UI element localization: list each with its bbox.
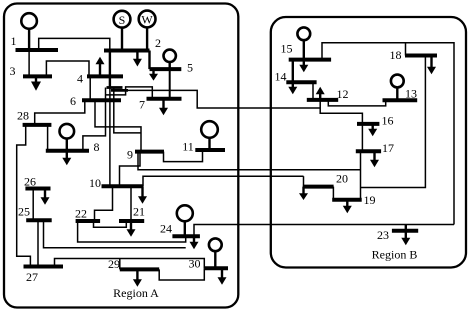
bus 20 — [303, 185, 334, 189]
generator G8 — [60, 124, 75, 139]
wire line 10-22 — [95, 186, 113, 221]
svg-text:3: 3 — [10, 64, 16, 78]
wire line 14-12 — [312, 82, 314, 100]
wire W stem — [146, 27, 148, 50]
svg-text:Region A: Region A — [113, 286, 159, 300]
transformer bar below bus 4 — [107, 86, 123, 89]
svg-text:7: 7 — [139, 98, 145, 112]
wire line 4-6 — [89, 76, 91, 100]
load arrow bus 2 — [136, 51, 138, 60]
bus 6 — [82, 98, 121, 102]
wire G5 stem — [168, 63, 170, 70]
wire transformer stem 6 up — [105, 88, 107, 101]
bus 4 — [87, 74, 123, 78]
bus 27 — [24, 265, 64, 269]
svg-text:29: 29 — [108, 257, 120, 271]
load arrow bus 10 — [141, 186, 143, 197]
generator G13 — [391, 75, 404, 88]
generator G24 — [177, 205, 193, 221]
bus 23 — [392, 229, 418, 233]
wire line 6-10 (step) — [95, 100, 141, 151]
bus 24 — [172, 234, 200, 238]
bus 30 — [204, 266, 228, 270]
load arrow bus 21 — [130, 221, 132, 230]
load arrow bus 7 — [162, 99, 164, 109]
bus 21 — [119, 219, 144, 223]
svg-text:2: 2 — [155, 36, 161, 50]
wire line 16-17 — [361, 124, 363, 151]
wire line 21-22 — [94, 221, 127, 227]
svg-text:18: 18 — [390, 48, 402, 62]
bus 11 — [195, 148, 225, 152]
svg-text:8: 8 — [94, 140, 100, 154]
svg-text:19: 19 — [364, 193, 376, 207]
svg-text:26: 26 — [24, 175, 36, 189]
load arrow bus 26 — [44, 189, 46, 199]
svg-text:15: 15 — [281, 42, 293, 56]
svg-text:22: 22 — [75, 207, 87, 221]
generator G1 — [21, 13, 37, 29]
bus 3 — [23, 74, 52, 78]
wire line 25-26 — [32, 189, 34, 221]
wire G8 stem — [66, 139, 68, 151]
svg-text:21: 21 — [133, 205, 145, 219]
wire line 2/6 vertical to bus 10 — [109, 88, 111, 187]
bus 17 — [356, 149, 381, 153]
wire line 4-12 (to Region B) — [111, 89, 128, 92]
wire line 2-5 — [148, 51, 150, 70]
generator S (solar) — [114, 11, 131, 28]
wire line 10-17 (to Region B) — [138, 152, 361, 170]
wire line 24-25 — [44, 220, 186, 247]
load arrow bus 20 — [302, 187, 304, 194]
wire G1 stem — [28, 29, 30, 50]
bus 10 — [102, 184, 144, 188]
bus 13 — [383, 98, 418, 102]
wire line 14-15 + load arrow bus 14 — [292, 60, 294, 88]
bus 22 — [76, 219, 101, 223]
generator G5 — [164, 50, 176, 62]
wire line 10-20 (to Region B) — [143, 176, 304, 186]
load arrow bus 19 — [346, 200, 348, 207]
wire line 23-24 (to Region B) with flow arrow — [194, 225, 454, 237]
svg-text:W: W — [141, 13, 153, 27]
bus 28 — [23, 123, 52, 127]
bus 14 — [286, 80, 316, 84]
bus 9 — [135, 150, 164, 154]
wire line 1-2 — [39, 38, 110, 50]
load arrow bus 8 — [66, 151, 68, 159]
Region A boundary box — [4, 4, 238, 308]
wire bus 18 stub to trunk — [405, 43, 407, 56]
load arrow bus 3 — [35, 76, 37, 82]
bus 29 — [120, 267, 159, 271]
wire line 9-11 — [164, 150, 203, 162]
svg-text:9: 9 — [127, 148, 133, 162]
svg-text:11: 11 — [182, 140, 194, 154]
wire trunk 27-29-30 — [55, 259, 205, 269]
wire line 29-30 — [159, 268, 204, 280]
svg-text:10: 10 — [89, 176, 101, 190]
svg-text:S: S — [119, 13, 126, 27]
wire line 9-10 — [120, 152, 141, 187]
svg-text:4: 4 — [77, 72, 83, 86]
wire line 8-28 — [47, 125, 49, 151]
wire line 6-7 — [106, 87, 153, 99]
svg-text:16: 16 — [382, 114, 394, 128]
wire line 28-27 — [17, 125, 31, 267]
bus 15 — [289, 58, 331, 62]
wire line 12-16 — [320, 100, 362, 124]
load arrow bus 5 — [152, 69, 154, 74]
wire line 18-19 — [360, 188, 362, 200]
svg-text:20: 20 — [336, 172, 348, 186]
wire G30 stem — [214, 251, 216, 268]
svg-text:25: 25 — [18, 205, 30, 219]
bus 5 — [150, 67, 182, 71]
wire line 6-8 — [83, 100, 106, 151]
svg-text:13: 13 — [405, 87, 417, 101]
wire 10-20 entry stub — [303, 176, 305, 186]
bus 16 — [357, 122, 379, 126]
wire line 25-27 — [37, 220, 39, 266]
load arrow bus 30 — [221, 268, 223, 278]
wire bus29 to trunk — [119, 259, 121, 270]
wire G15 stem + load arrow bus 15 — [303, 40, 305, 65]
flow arrow up at bus 4 (tie line 4-12) — [99, 64, 101, 77]
svg-text:27: 27 — [26, 270, 38, 284]
bus 1 — [16, 48, 59, 52]
wire line 6-9 — [114, 88, 141, 133]
svg-text:24: 24 — [160, 222, 172, 236]
load arrow bus 16 — [372, 124, 374, 130]
bus 26 — [25, 187, 50, 191]
svg-text:30: 30 — [189, 257, 201, 271]
svg-text:5: 5 — [187, 61, 193, 75]
svg-text:Region B: Region B — [372, 248, 418, 262]
svg-text:14: 14 — [275, 70, 287, 84]
wire line 6-28 — [35, 100, 85, 125]
svg-text:28: 28 — [17, 109, 29, 123]
load arrow bus 17 — [373, 151, 375, 160]
bus 19 — [332, 198, 362, 202]
wire line 19-20 — [332, 187, 334, 200]
svg-text:6: 6 — [70, 94, 76, 108]
wire G24 stem — [184, 221, 186, 236]
Region B boundary box — [271, 17, 466, 268]
flow arrow at bus 24 — [193, 236, 195, 242]
bus 8 — [46, 149, 89, 153]
svg-text:23: 23 — [377, 228, 389, 242]
load arrow bus 29 — [136, 269, 138, 280]
wire line 10-21 — [130, 186, 132, 221]
wire line 3-4 — [46, 61, 89, 76]
bus 2 — [104, 49, 150, 53]
bus 12 — [307, 98, 338, 102]
svg-text:12: 12 — [337, 87, 349, 101]
wire line 15-18/15-23 trunk — [322, 43, 454, 225]
wire 17 stem to line 10-17 and down — [360, 151, 362, 187]
bus 25 — [26, 218, 52, 222]
generator G11 — [201, 121, 218, 138]
bus 7 — [147, 97, 182, 101]
wire line 12-13 — [328, 100, 385, 106]
wire line 2-4 (through bus 4 down to transformer bar) — [109, 51, 111, 88]
generator G30 — [209, 238, 222, 251]
wire line 22-24 — [78, 221, 186, 242]
bus 18 — [405, 54, 437, 58]
wire S stem — [121, 28, 123, 51]
wire 23 stub to line 23-24 + flow arrow — [405, 225, 407, 239]
flow arrow up at bus 12 (tie line 4-12) — [319, 94, 321, 100]
wire G13 stem — [396, 87, 398, 100]
wire G11 stem — [208, 138, 210, 150]
svg-text:1: 1 — [11, 34, 17, 48]
generator W (wind) — [139, 11, 156, 28]
wire line 1-3 — [28, 50, 30, 76]
generator G15 — [297, 27, 310, 40]
load arrow bus 18 — [430, 56, 432, 68]
wire line 5-7 — [169, 69, 171, 99]
svg-text:17: 17 — [382, 141, 394, 155]
